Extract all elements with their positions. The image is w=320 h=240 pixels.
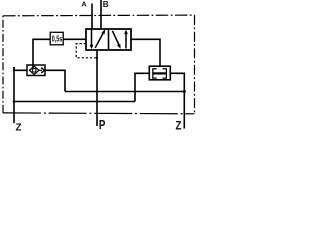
component U2 piston bar — [153, 72, 167, 74]
svg-text:A: A — [81, 0, 87, 9]
wire: pilot line from timer box to valve — [63, 38, 86, 40]
timer orifice box 0,5s — [50, 32, 63, 45]
wire: P line from valve to port P — [96, 50, 98, 126]
svg-text:P: P — [99, 119, 106, 131]
wire: valve right outlet to component — [131, 39, 160, 66]
directional valve V1: left position diagonal path arrow (up) — [95, 29, 105, 48]
enclosure border (dash-dot subsystem boundary) — [3, 15, 195, 114]
wire: timer box drain to check valve — [33, 39, 50, 68]
component U2 body — [149, 66, 170, 80]
wire: component left port drop — [135, 73, 149, 101]
directional valve V1: right position diagonal path arrow (down) — [112, 31, 120, 49]
directional valve V1: body — [86, 29, 131, 50]
junction: left Z tank bus — [13, 100, 16, 103]
svg-text:0,5s: 0,5s — [52, 36, 63, 44]
svg-text:B: B — [103, 0, 109, 9]
directional valve V1: left position straight path arrow (down) — [90, 30, 94, 50]
wire: tank bus lower from left Z — [14, 101, 135, 103]
junction: pilot tap on P line — [96, 57, 98, 59]
wire: port A line — [91, 4, 93, 30]
check valve seat (diamond) — [30, 66, 39, 74]
component U2 left bracket — [153, 69, 157, 78]
wire: component right port to right Z vertical — [170, 73, 184, 128]
svg-text:Z: Z — [16, 123, 22, 132]
wire: dashed pilot branch to P line — [76, 44, 96, 58]
wire: check valve right port elbow to tank bus — [45, 70, 65, 91]
check valve flow arrow — [39, 68, 45, 73]
component U2 right bracket — [163, 69, 167, 78]
wire: check valve left port to Z line — [14, 67, 27, 70]
directional valve V1: position divider — [108, 29, 110, 50]
check valve ball (circle) — [32, 68, 36, 72]
wire: port B line — [100, 0, 102, 30]
junction: right Z and tank bus — [183, 90, 186, 93]
directional valve V1: right position straight path arrow (up) — [124, 30, 128, 49]
wire: left Z vertical — [13, 67, 15, 123]
check valve box — [27, 65, 45, 76]
svg-text:Z: Z — [176, 119, 182, 131]
wire: tank bus upper — [65, 91, 184, 93]
